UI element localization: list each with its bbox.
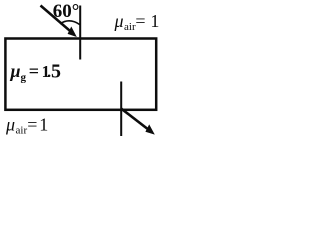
decimal point of 1.5 [48, 74, 51, 77]
emergent ray arrowhead [145, 124, 154, 134]
normal at entry (top surface) [79, 6, 81, 60]
60 degree arc [60, 21, 80, 25]
svg-text:μair=1: μair=1 [5, 115, 48, 137]
svg-text:μair=1: μair=1 [114, 11, 160, 33]
svg-text:μg=15: μg=15 [10, 61, 62, 84]
glass slab rectangle [5, 39, 156, 110]
incident ray [41, 6, 73, 34]
incident ray arrowhead [68, 27, 77, 38]
emergent ray [121, 108, 149, 130]
normal at exit (bottom surface) [120, 82, 122, 137]
svg-text:60°: 60° [53, 1, 80, 22]
